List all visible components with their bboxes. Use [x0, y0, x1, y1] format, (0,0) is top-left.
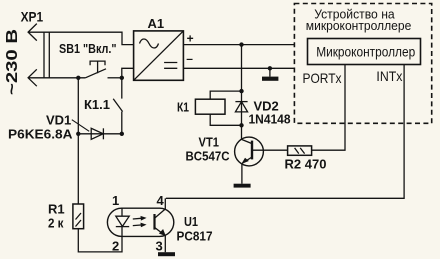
A1 DC symbol — [164, 63, 177, 69]
svg-text:SB1 "Вкл.": SB1 "Вкл." — [59, 41, 117, 56]
svg-text:3: 3 — [156, 238, 163, 253]
U1 pin 3 wire — [164, 236, 166, 253]
optocoupler U1 body — [107, 208, 173, 236]
svg-text:VD1: VD1 — [46, 113, 71, 128]
svg-text:К1.1: К1.1 — [84, 97, 110, 112]
svg-text:~230 В: ~230 В — [4, 29, 21, 95]
junction VD1 right — [120, 132, 124, 136]
U1 LED — [116, 208, 129, 236]
A1 diagonal — [134, 31, 183, 80]
switch SB1 blade — [85, 69, 106, 78]
junction + rail / K1 branch — [239, 42, 243, 46]
ground symbol U1 pin 3 — [158, 252, 175, 256]
svg-text:INTx: INTx — [376, 68, 402, 84]
leader line VD1 — [72, 120, 89, 132]
junction VD2 bottom — [239, 123, 243, 127]
U1 pin 4 wire — [164, 198, 166, 209]
svg-text:2 к: 2 к — [48, 215, 64, 230]
junction VD1 left — [76, 132, 80, 136]
svg-text:микроконтроллере: микроконтроллере — [306, 18, 412, 33]
diode VD1 — [78, 128, 122, 139]
connector XP1 arrow bottom pin — [28, 69, 37, 86]
wire mains bottom jog up to A1 input — [122, 68, 134, 78]
svg-text:BC547C: BC547C — [186, 149, 231, 164]
wire + rail down to VD2/K1 — [241, 45, 243, 92]
wire VT1 base to R2 — [252, 149, 288, 151]
wire K1 top to node — [210, 91, 241, 99]
A1 sine symbol — [140, 39, 159, 48]
wire R2 to PORTx — [312, 65, 345, 151]
svg-text:К1: К1 — [177, 100, 189, 115]
wire INTx line — [166, 65, 404, 199]
relay coil K1 — [195, 99, 225, 114]
wire mains bottom (XP1 to SB1 left contact) — [28, 77, 85, 79]
svg-text:4: 4 — [157, 193, 165, 208]
svg-text:A1: A1 — [148, 16, 165, 31]
wire R1 bottom to U1 pin 2 — [78, 229, 122, 252]
MCU box — [308, 39, 421, 65]
wire VD2 node to VT1 collector — [241, 125, 243, 139]
svg-text:+: + — [187, 31, 194, 45]
resistor R2 — [288, 146, 312, 155]
converter A1 box — [134, 31, 184, 80]
junction − rail / ground tap — [268, 66, 272, 70]
junction VD2 top — [239, 89, 243, 93]
junction node mains-left — [76, 76, 80, 80]
ground symbol on − rail — [262, 68, 278, 80]
wire VD1 node to R1 — [77, 134, 79, 204]
svg-text:PC817: PC817 — [177, 228, 213, 243]
wire left branch (mains-left node down to VD1 node) — [77, 78, 79, 134]
diode VD2 — [235, 91, 247, 125]
svg-text:Микроконтроллер: Микроконтроллер — [316, 45, 415, 60]
U1 phototransistor — [155, 209, 166, 236]
svg-text:U1: U1 — [184, 214, 198, 229]
svg-text:1: 1 — [112, 193, 119, 208]
svg-text:2: 2 — [112, 238, 119, 253]
svg-text:PORTx: PORTx — [303, 70, 342, 86]
wire − rail (A1 to device box) — [183, 67, 294, 69]
device box (dashed) — [294, 4, 431, 124]
resistor R1 — [73, 204, 84, 229]
ground symbol VT1 emitter — [234, 184, 251, 188]
svg-text:–: – — [186, 52, 193, 66]
switch SB1 right contact wire — [108, 77, 122, 79]
U1 coupling arrows — [133, 216, 147, 227]
svg-text:R2 470: R2 470 — [285, 156, 327, 171]
switch SB1 actuator — [90, 61, 105, 73]
wire K1 bottom to node — [210, 114, 241, 125]
relay contact K1.1 blade — [113, 99, 122, 112]
connector XP1 body bars — [44, 32, 49, 79]
connector XP1 arrow top pin — [28, 24, 37, 41]
junction node mains-right — [120, 76, 124, 80]
wire + rail (A1 to device box) — [183, 44, 294, 46]
wire K1.1 branch from mains-right node — [121, 78, 123, 99]
svg-text:1N4148: 1N4148 — [249, 112, 291, 127]
transistor VT1 — [235, 137, 264, 184]
wire mains top (XP1 to A1 input, with jog down) — [28, 32, 134, 44]
svg-text:VT1: VT1 — [199, 135, 220, 150]
wire K1.1 to VD1 node — [121, 112, 123, 134]
svg-text:ХР1: ХР1 — [21, 8, 44, 24]
svg-text:P6KE6.8A: P6KE6.8A — [8, 127, 73, 142]
